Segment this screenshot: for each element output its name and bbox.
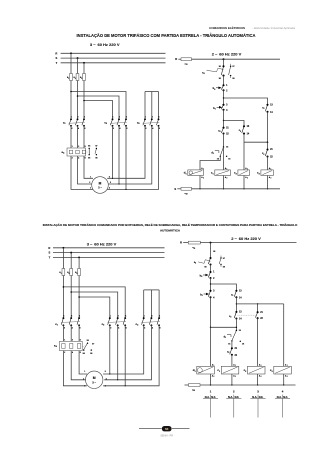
svg-text:R: R: [55, 51, 57, 55]
wire c1 seal to bus junction: [235, 297, 237, 312]
coil c2 bottom: [248, 366, 266, 374]
interlock contact c2 21-22: [267, 142, 269, 149]
seal contact c1 13-14 bottom: [235, 290, 237, 292]
svg-text:3 ~: 3 ~: [98, 186, 102, 190]
wire fuses to contactor c1 bottom: [62, 276, 64, 319]
wire overload to motor W1: [71, 156, 93, 189]
timer contact d1 15-16-18: [220, 147, 223, 156]
svg-text:1: 1: [72, 146, 73, 148]
wire phase drops to fuses bottom: [62, 247, 64, 249]
svg-text:2: 2: [72, 158, 73, 160]
svg-text:2: 2: [89, 182, 90, 184]
svg-text:N.F.: N.F.: [283, 396, 288, 399]
svg-text:N.F.: N.F.: [211, 396, 216, 399]
svg-text:97: 97: [92, 343, 94, 345]
wire b1 to interlock with branch to c3 contact: [223, 110, 225, 128]
wire motor W2 stub to c2 and star: [107, 126, 145, 179]
coil c1: [215, 170, 231, 176]
wire e4 to b0 bottom: [210, 265, 212, 273]
svg-text:3 ~: 3 ~: [92, 381, 96, 385]
wire c1 to overload relay bottom: [62, 325, 64, 341]
fuse e1 bottom: [62, 269, 65, 276]
star point bus bottom: [144, 289, 159, 291]
svg-text:4: 4: [109, 187, 110, 190]
pushbutton b1 start bottom: [209, 290, 211, 292]
wire main control drop: [223, 58, 225, 60]
svg-text:- Eletricidade Industrial Apli: - Eletricidade Industrial Aplicada: [252, 26, 295, 30]
svg-text:6: 6: [85, 158, 86, 160]
svg-text:R: R: [175, 57, 177, 61]
svg-text:3: 3: [84, 386, 85, 388]
wire timer 16 to timer coil: [200, 156, 220, 170]
coil c3 bottom: [274, 366, 292, 374]
wire motor U2 stub to c2 and star: [108, 126, 152, 184]
contactor c1 main contacts: [70, 118, 72, 120]
svg-text:N.A.: N.A.: [277, 396, 282, 399]
svg-text:58: 58: [165, 427, 169, 431]
coil d1 timer bottom: [197, 366, 215, 374]
overload contact e4 97-98: [230, 66, 231, 67]
svg-text:S: S: [49, 251, 51, 255]
wire branch S to c2: [78, 96, 120, 119]
svg-text:COMANDOS ELÉTRICOS: COMANDOS ELÉTRICOS: [209, 25, 245, 30]
svg-text:SENAI - PR: SENAI - PR: [160, 435, 173, 438]
overload contact e4 97-98 bottom: [220, 257, 221, 258]
interlock contact c3 21-22: [222, 127, 224, 129]
wire b0 to b1 with seal branch: [223, 90, 225, 105]
wire branch S to c2 bottom: [71, 292, 118, 318]
svg-text:5: 5: [106, 378, 107, 380]
svg-text:3 ~ 60 Hz 220 V: 3 ~ 60 Hz 220 V: [90, 42, 120, 47]
coil c3: [261, 170, 273, 176]
overload relay e4: [67, 148, 86, 156]
contactor c2 delta contacts bottom: [109, 317, 111, 319]
wire 18 to contactor c1 coil: [223, 147, 225, 170]
timer contact d1 15-16-18 bottom: [232, 330, 237, 340]
wire b0 to b1 with seal branch bottom: [210, 278, 212, 291]
wire overload to motor V1: [78, 156, 92, 184]
wire branch T to c2 bottom: [79, 297, 110, 318]
svg-text:96: 96: [219, 78, 221, 80]
fuse e3: [83, 74, 86, 81]
svg-text:INSTALAÇÃO DE MOTOR TRIFÁSICO: INSTALAÇÃO DE MOTOR TRIFÁSICO COM PARTID…: [77, 33, 256, 38]
wire motor V2 stub to c2 and star bottom: [103, 325, 159, 386]
wire b1 bypass loop: [211, 297, 237, 327]
svg-text:5: 5: [110, 182, 111, 184]
svg-text:97: 97: [95, 146, 97, 148]
svg-text:M: M: [99, 181, 102, 185]
svg-text:96: 96: [88, 157, 90, 159]
svg-text:6: 6: [109, 176, 110, 178]
svg-text:5: 5: [80, 340, 81, 342]
wire motor U2 stub to c2 and star bottom: [104, 325, 151, 380]
wire fuses to contactor c1: [70, 81, 72, 120]
svg-text:95: 95: [88, 146, 90, 148]
overload relay e4 bottom: [60, 341, 83, 350]
svg-text:1: 1: [90, 176, 91, 178]
footer page badge 58: [162, 426, 172, 431]
svg-text:R: R: [48, 246, 50, 250]
svg-text:R: R: [180, 241, 182, 245]
svg-text:98: 98: [95, 157, 97, 159]
svg-text:3: 3: [78, 146, 79, 148]
svg-text:3: 3: [72, 340, 73, 342]
svg-text:98: 98: [90, 353, 92, 355]
wire branch T to c2: [84, 101, 113, 120]
star point bus: [145, 91, 159, 93]
wire c1 to overload relay: [70, 126, 72, 148]
contactor c2 delta contacts: [112, 118, 114, 120]
wire c1 seal down: [267, 112, 269, 142]
svg-text:AUTOMÁTICA: AUTOMÁTICA: [160, 228, 181, 233]
wire motor W2 stub to c2 and star bottom: [103, 325, 144, 374]
svg-text:4: 4: [105, 385, 106, 388]
svg-text:95: 95: [87, 340, 89, 342]
wire main control drop bottom: [210, 242, 212, 244]
wire e4 to b0: [223, 76, 225, 86]
svg-text:96: 96: [83, 353, 85, 355]
svg-text:2 ~ 60 Hz 220 V: 2 ~ 60 Hz 220 V: [212, 51, 242, 56]
control phase S with fuse e22 bottom: [185, 384, 189, 386]
timer node 15: [223, 134, 225, 148]
svg-text:98: 98: [232, 78, 234, 80]
svg-text:2: 2: [83, 378, 84, 380]
wire phase drops to fuses: [70, 52, 72, 54]
wire main to timer coil bottom: [210, 327, 212, 366]
fuse e2: [76, 74, 79, 81]
wire coils to S bus: [199, 176, 201, 189]
pushbutton b1 start: [222, 104, 224, 106]
svg-text:S: S: [56, 56, 58, 60]
fuse e1: [70, 74, 73, 81]
wire overload to motor U1: [84, 156, 93, 178]
svg-text:N.F.: N.F.: [259, 396, 264, 399]
svg-text:3 ~ 60 Hz 220 V: 3 ~ 60 Hz 220 V: [87, 241, 117, 246]
aux contact c3 13-14: [243, 125, 245, 127]
svg-text:3: 3: [90, 188, 91, 190]
wire motor V2 stub to c2 and star: [107, 126, 158, 190]
contactor c3 star contacts bottom: [143, 317, 145, 319]
footer rule left: [139, 428, 162, 430]
wire c2 aux to timer node: [235, 319, 237, 331]
wire branch R to c2 bottom: [63, 287, 125, 318]
wire coils to S bus bottom: [210, 374, 212, 385]
svg-text:1: 1: [64, 340, 65, 342]
svg-text:N.A.: N.A.: [228, 396, 233, 399]
overload aux contacts 95-96 97-98: [86, 151, 89, 153]
svg-text:M: M: [93, 376, 96, 380]
svg-text:5: 5: [85, 146, 86, 148]
contactor c1 main contacts bottom: [62, 317, 64, 319]
svg-text:1: 1: [84, 371, 85, 373]
fuse e3 bottom: [78, 269, 81, 276]
mechanical link dashes: [238, 314, 257, 316]
overload aux contacts bottom: [82, 346, 85, 348]
wire branch R to c2: [71, 92, 126, 120]
svg-text:2: 2: [64, 352, 65, 354]
wire c3 aux to junction: [243, 134, 245, 170]
aux contact c3 21-22 bottom: [231, 341, 233, 348]
pushbutton b0 stop: [222, 84, 224, 86]
motor M1 3-phase bottom: [86, 371, 103, 388]
svg-text:INSTALAÇÃO DE MOTOR TRIFÁSICO: INSTALAÇÃO DE MOTOR TRIFÁSICO COMANDADO …: [43, 222, 298, 227]
wire overload to motor W1 bottom: [63, 351, 87, 386]
coil c2: [238, 170, 250, 176]
overload contact e4 95-96 bottom: [209, 257, 211, 259]
wire overload to motor V1 bottom: [71, 351, 86, 380]
aux contact c2 13-14 bottom: [235, 311, 237, 313]
interlock contact 21-22 on c2 branch: [257, 304, 259, 312]
control bus to right branches: [236, 303, 283, 305]
fuse e2 bottom: [70, 269, 73, 276]
svg-text:N.A.: N.A.: [252, 396, 257, 399]
svg-text:95: 95: [213, 251, 215, 253]
svg-text:S: S: [174, 187, 176, 191]
svg-text:97: 97: [223, 258, 225, 260]
svg-text:95: 95: [219, 66, 221, 68]
svg-text:6: 6: [105, 371, 106, 373]
wire overload to motor U1 bottom: [79, 351, 87, 374]
svg-text:2 ~ 60 Hz 220 V: 2 ~ 60 Hz 220 V: [231, 236, 261, 241]
pushbutton b0 stop bottom: [209, 271, 211, 273]
svg-text:N.A.: N.A.: [205, 396, 210, 399]
wire bus to c3 coil bottom: [283, 304, 285, 366]
overload contact e4 95-96: [222, 65, 224, 67]
svg-text:N.F.: N.F.: [235, 396, 240, 399]
coil c1 bottom: [221, 366, 239, 374]
svg-text:97: 97: [232, 66, 234, 68]
svg-text:6: 6: [80, 352, 81, 354]
svg-text:98: 98: [223, 267, 225, 269]
motor M1 3-phase: [92, 177, 109, 194]
footer rule right: [172, 428, 190, 430]
svg-text:96: 96: [204, 267, 206, 269]
coil d1 timer: [188, 170, 204, 176]
seal contact c1 13-14: [266, 104, 268, 106]
contactor c3 star contacts: [144, 118, 146, 120]
